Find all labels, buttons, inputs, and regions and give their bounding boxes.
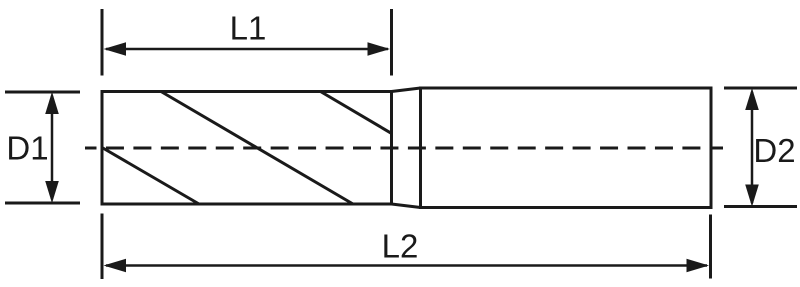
L2 extension line left <box>101 214 104 280</box>
D1 extension line bottom <box>5 202 80 205</box>
flute line 2 (long center diagonal) <box>161 92 353 205</box>
neck transition top edge <box>392 88 421 92</box>
centerline (dashed axis) <box>85 147 723 150</box>
label D2 <box>753 132 795 169</box>
L2 extension line right <box>709 215 712 279</box>
svg-text:D1: D1 <box>6 130 48 167</box>
L2 dimension line <box>106 264 707 267</box>
svg-text:L2: L2 <box>382 228 419 265</box>
D1 dimension line <box>51 96 54 199</box>
D2 arrowhead top <box>745 88 759 110</box>
D2 extension line top <box>724 87 797 90</box>
flute line 3 (upper-right diagonal) <box>321 92 392 134</box>
flute line 1 (lower-left diagonal) <box>102 148 199 205</box>
D2 dimension line <box>751 92 754 203</box>
D2 extension line bottom <box>724 205 797 208</box>
svg-text:L1: L1 <box>230 10 267 47</box>
L2 arrowhead left <box>104 259 127 273</box>
L1 dimension line <box>106 48 388 51</box>
label L2 <box>382 228 419 265</box>
neck transition bottom edge <box>392 204 421 208</box>
L1 arrowhead right <box>368 42 391 56</box>
L1 extension line right <box>390 9 393 76</box>
label D1 <box>6 130 48 167</box>
D2 arrowhead bottom <box>745 185 759 207</box>
D1 arrowhead bottom <box>45 181 59 203</box>
L1 extension line left <box>101 9 104 76</box>
shank outline <box>421 88 712 208</box>
L1 arrowhead left <box>104 42 127 56</box>
D1 extension line top <box>5 91 80 94</box>
svg-text:D2: D2 <box>753 132 795 169</box>
label L1 <box>230 10 267 47</box>
D1 arrowhead top <box>45 92 59 114</box>
L2 arrowhead right <box>687 259 710 273</box>
flute body (cutting section) outline <box>102 92 392 205</box>
